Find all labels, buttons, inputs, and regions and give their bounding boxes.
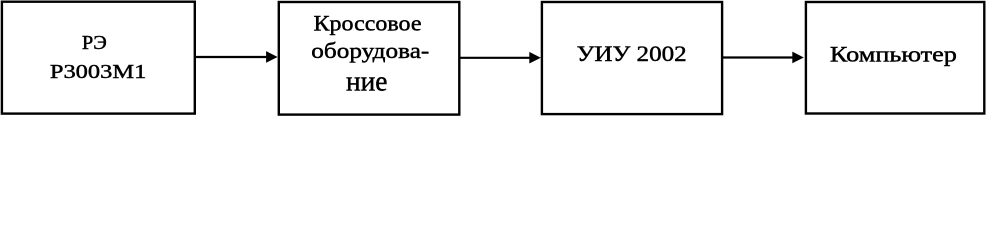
svg-text:Р3003М1: Р3003М1 (50, 61, 147, 83)
block box РЭ Р3003М1 (2, 2, 195, 114)
wire arrow 1 (194, 56, 268, 58)
svg-text:оборудова-: оборудова- (311, 38, 429, 63)
svg-text:ние: ние (346, 65, 388, 97)
svg-text:Компьютер: Компьютер (830, 42, 957, 67)
block box УИУ 2002 (542, 2, 722, 114)
svg-text:РЭ: РЭ (82, 32, 107, 54)
arrowhead 1 (266, 51, 278, 63)
svg-text:УИУ 2002: УИУ 2002 (577, 41, 687, 66)
svg-text:Кроссовое: Кроссовое (314, 11, 422, 36)
block box Кроссовое оборудование (279, 2, 460, 115)
arrowhead 2 (529, 52, 541, 64)
wire arrow 3 (722, 56, 794, 58)
block box Компьютер (806, 2, 984, 114)
wire arrow 2 (459, 57, 531, 59)
arrowhead 3 (792, 52, 804, 64)
